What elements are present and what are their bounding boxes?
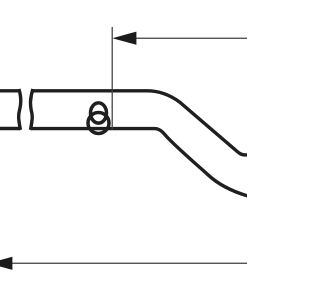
tube left stub bottom edge: [0, 127, 20, 130]
tube left stub top edge: [0, 89, 19, 92]
bottom dimension arrowhead: [0, 257, 12, 270]
top dimension line: [135, 37, 247, 39]
tube body bottom edge: [31, 129, 248, 196]
tube body top edge: [33, 91, 248, 155]
bottom dimension line: [11, 262, 247, 264]
top dimension arrowhead: [112, 32, 136, 45]
break line (left stub right edge): [19, 89, 21, 130]
push button upper ellipse: [91, 103, 107, 123]
break line (main tube left edge): [30, 89, 33, 130]
extension line: [111, 27, 113, 130]
push button lower circle: [88, 113, 109, 134]
